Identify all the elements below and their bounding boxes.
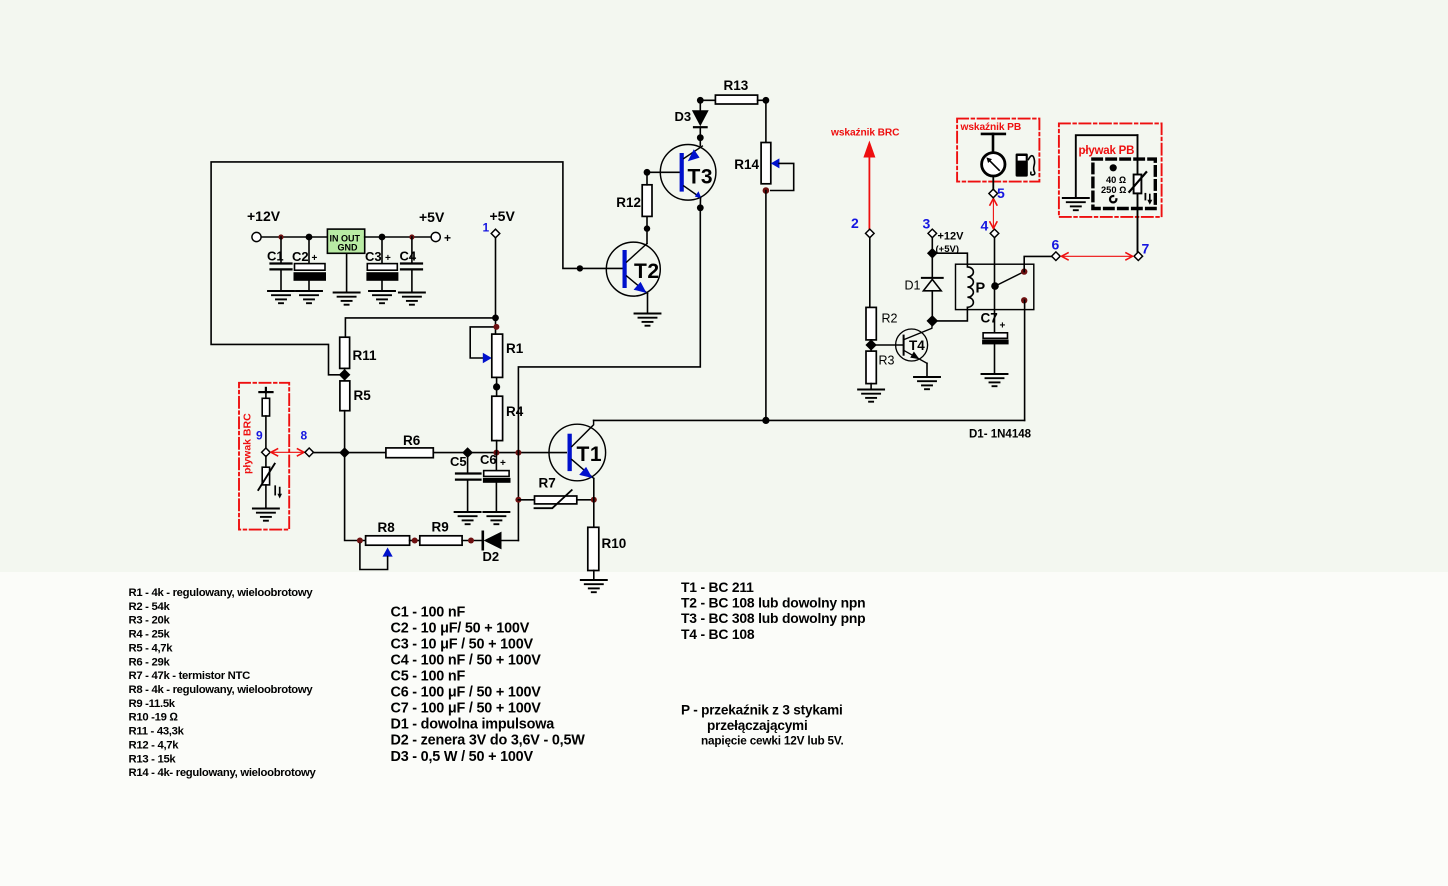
svg-text:R5 - 4,7k: R5 - 4,7k — [129, 642, 174, 654]
junction R8 left — [357, 538, 363, 544]
transistor T1 — [549, 420, 606, 480]
junction R7 left — [515, 497, 521, 503]
wire R11 to R5 — [344, 368, 346, 381]
svg-text:R1 - 4k - regulowany, wieloobr: R1 - 4k - regulowany, wieloobrotowy — [129, 587, 314, 599]
svg-text:C3 - 10 μF / 50 + 100V: C3 - 10 μF / 50 + 100V — [391, 637, 534, 653]
wire node 1 down to R1 — [495, 238, 497, 334]
svg-text:R10 -19 Ω: R10 -19 Ω — [129, 712, 179, 724]
ground regulator — [334, 293, 360, 305]
svg-text:D1- 1N4148: D1- 1N4148 — [969, 429, 1032, 441]
wire sender resistor to node 9 — [265, 416, 267, 449]
ground R10 — [581, 580, 607, 592]
transistor T4 — [896, 322, 933, 364]
svg-text:C6: C6 — [480, 452, 497, 467]
diode D2 zener — [483, 532, 502, 564]
svg-text:3: 3 — [923, 216, 931, 232]
wire regulator GND — [346, 253, 348, 292]
rheostat PB sender — [1129, 172, 1152, 205]
junction C6 tap — [493, 450, 499, 456]
wire T3 emitter up to D3 — [699, 138, 701, 146]
wire node 3 to D1 — [931, 238, 933, 278]
wire vertical net D2/R7/node row — [517, 453, 519, 541]
svg-text:D3: D3 — [675, 109, 692, 124]
wire regulator OUT to +5V terminal — [365, 236, 431, 238]
svg-text:R12: R12 — [616, 195, 641, 210]
junction +5V rail — [492, 315, 499, 322]
svg-text:C6 - 100 μF / 50 + 100V: C6 - 100 μF / 50 + 100V — [391, 685, 542, 701]
resistor R2 — [866, 307, 898, 340]
junction C3 tap — [379, 234, 386, 241]
svg-text:C7: C7 — [981, 311, 998, 326]
junction D3/R13 — [697, 97, 704, 104]
svg-text:+5V: +5V — [490, 208, 516, 224]
junction R9/D2 — [468, 538, 474, 544]
wire T2 collector to R12 — [646, 216, 648, 243]
svg-text:4: 4 — [981, 218, 989, 234]
wire lower contact down — [1024, 300, 1026, 420]
resistor R3 — [866, 351, 895, 384]
svg-text:+12V: +12V — [938, 231, 965, 243]
svg-text:R4 - 25k: R4 - 25k — [129, 629, 171, 641]
diode D1 — [905, 278, 943, 321]
capacitor C2 — [292, 237, 326, 291]
svg-text:C2 - 10 μF/ 50 + 100V: C2 - 10 μF/ 50 + 100V — [391, 620, 530, 636]
junction R12/T3 base — [644, 169, 651, 176]
svg-text:8: 8 — [301, 429, 308, 443]
wire plywak PB top — [1076, 135, 1138, 196]
wire node 2 to R2 — [869, 238, 871, 308]
svg-text:R8 - 4k - regulowany, wieloobr: R8 - 4k - regulowany, wieloobrotowy — [129, 684, 314, 696]
svg-text:C4 - 100 nF / 50 + 100V: C4 - 100 nF / 50 + 100V — [391, 653, 542, 669]
wire R7 right lead — [577, 499, 594, 501]
resistor R11 — [340, 337, 377, 368]
svg-text:+: + — [444, 231, 451, 245]
potentiometer R1 wiper loop — [470, 327, 496, 363]
diode D3 — [675, 100, 709, 137]
svg-text:+12V: +12V — [247, 208, 281, 224]
wire T4 emitter to ground — [926, 363, 928, 377]
svg-text:D1: D1 — [905, 279, 921, 293]
potentiometer R14 wiper loop — [771, 158, 794, 190]
red link arrow node 6 to node 7 — [1062, 253, 1133, 260]
ground T4 — [914, 377, 940, 389]
svg-text:R14: R14 — [734, 157, 759, 172]
node 4 — [990, 229, 999, 238]
wire coil feed — [932, 253, 967, 264]
wire +5V rail to R11 — [345, 318, 495, 337]
svg-text:R6: R6 — [403, 433, 421, 448]
svg-text:D1 - dowolna impulsowa: D1 - dowolna impulsowa — [391, 717, 556, 733]
svg-text:przełączającymi: przełączającymi — [707, 718, 808, 733]
wire node 8 to R6 — [314, 452, 386, 454]
svg-text:R1: R1 — [506, 341, 524, 356]
svg-text:R12 - 4,7k: R12 - 4,7k — [129, 740, 180, 752]
svg-text:C1 - 100 nF: C1 - 100 nF — [391, 604, 466, 620]
wire upper contact to node 6 — [1024, 256, 1051, 271]
svg-text:2: 2 — [851, 215, 859, 231]
svg-text:R14 - 4k- regulowany, wieloobr: R14 - 4k- regulowany, wieloobrotowy — [129, 767, 317, 779]
ground C5 — [455, 512, 481, 524]
ground C3 — [369, 291, 395, 303]
junction R11/R5 — [339, 369, 351, 381]
svg-text:R13: R13 — [724, 78, 749, 93]
resistor R9 — [420, 520, 462, 546]
ground C7 — [982, 374, 1008, 386]
svg-text:R7 - 47k - termistor NTC: R7 - 47k - termistor NTC — [129, 670, 251, 682]
relay contact upper — [1021, 268, 1027, 274]
ground plywak PB — [1063, 198, 1089, 210]
fuel pump icon — [1016, 154, 1035, 177]
svg-text:40 Ω: 40 Ω — [1106, 175, 1126, 185]
junction R13/R14 — [763, 97, 770, 104]
svg-text:C4: C4 — [400, 249, 417, 264]
wire R1 to R4 — [496, 377, 498, 396]
junction D1/T4 collector/coil — [927, 315, 939, 327]
junction on T2 base wire — [577, 265, 583, 271]
svg-text:pływak PB: pływak PB — [1079, 145, 1135, 157]
gauge needle — [986, 157, 999, 170]
wire rheostat to node 7 — [1137, 193, 1139, 252]
plywak PB inner dashed box — [1093, 159, 1155, 208]
plywak BRC dashed box — [239, 383, 289, 530]
junction relay common contact — [991, 282, 999, 290]
wire R5 down to node-8 row — [344, 411, 346, 453]
svg-text:R6 - 29k: R6 - 29k — [129, 656, 171, 668]
svg-text:R13 - 15k: R13 - 15k — [129, 753, 177, 765]
terminal bar in plywak BRC — [259, 388, 272, 392]
wire R3 to ground — [870, 384, 872, 390]
wire node 4 through relay to C7 — [994, 238, 996, 333]
wire T3 collector down — [699, 198, 701, 208]
svg-text:wskaźnik PB: wskaźnik PB — [960, 122, 1022, 133]
resistor R10 — [588, 527, 626, 570]
wire R13 to R14 — [758, 99, 766, 101]
svg-text:P: P — [976, 281, 986, 297]
wire R8 to R9 — [410, 540, 420, 542]
wire gauge to node 5 — [992, 176, 994, 189]
svg-text:D3 - 0,5 W / 50 + 100V: D3 - 0,5 W / 50 + 100V — [391, 749, 534, 765]
potentiometer R8 — [366, 520, 410, 545]
wire T1 emitter to R10 — [593, 479, 595, 528]
svg-text:T2: T2 — [634, 260, 660, 283]
svg-text:C5 - 100 nF: C5 - 100 nF — [391, 669, 466, 685]
red link arrow node 9 to node 8 — [271, 449, 304, 456]
wire T3 base — [647, 171, 680, 173]
svg-text:T3 - BC 308 lub dowolny pnp: T3 - BC 308 lub dowolny pnp — [681, 610, 865, 626]
node 6 — [1052, 252, 1061, 261]
svg-text:R5: R5 — [354, 388, 372, 403]
svg-text:1: 1 — [483, 221, 490, 235]
svg-text:+: + — [312, 253, 318, 264]
svg-text:+: + — [500, 458, 506, 469]
svg-text:R2: R2 — [882, 312, 898, 326]
ground C1 — [268, 291, 294, 303]
svg-text:C5: C5 — [450, 454, 467, 469]
relay contact lower — [1021, 297, 1027, 303]
junction R1/R4 — [493, 383, 500, 390]
node 2 — [866, 229, 875, 238]
wire R10 to ground — [593, 571, 595, 581]
junction R14 line / collector line — [762, 417, 769, 424]
thermistor R7 — [535, 476, 577, 509]
potentiometer R1 — [492, 334, 524, 377]
junction C1 tap — [278, 234, 283, 239]
capacitor C4 — [400, 237, 423, 293]
wire rheostat to ground — [265, 485, 267, 509]
ground C6 — [483, 512, 509, 524]
svg-text:R11: R11 — [353, 348, 378, 363]
wire R13 junction down to R14 — [765, 100, 767, 142]
svg-text:T1: T1 — [577, 443, 603, 466]
svg-text:D2 - zenera 3V do 3,6V - 0,5W: D2 - zenera 3V do 3,6V - 0,5W — [391, 733, 586, 749]
wire T1 collector line to relay contact — [594, 419, 1025, 421]
wire T4 base — [871, 344, 904, 346]
junction T1 emitter / R7 — [591, 497, 597, 503]
regulator U1 IN OUT GND — [327, 229, 364, 253]
node 1 — [491, 229, 500, 238]
svg-text:wskaźnik BRC: wskaźnik BRC — [830, 128, 900, 139]
svg-text:R3 - 20k: R3 - 20k — [129, 615, 171, 627]
junction R8/R9 — [412, 538, 418, 544]
wskaznik PB dashed box — [957, 119, 1039, 182]
svg-text:+: + — [385, 253, 391, 264]
svg-text:C2: C2 — [292, 249, 309, 264]
ground T2 — [635, 314, 661, 326]
relay switch arm — [995, 272, 1024, 287]
node 3 — [928, 229, 937, 238]
svg-text:P - przekaźnik z 3 stykami: P - przekaźnik z 3 stykami — [681, 703, 843, 718]
svg-text:R8: R8 — [378, 520, 396, 535]
wire R2 to R3 — [870, 340, 872, 351]
terminal +5V output — [431, 231, 451, 245]
svg-text:T2 - BC 108 lub dowolny npn: T2 - BC 108 lub dowolny npn — [681, 595, 865, 611]
junction T3 collector node — [697, 204, 704, 211]
svg-text:+: + — [1000, 321, 1006, 332]
wire T3 collector net to D2/R7 vertical — [518, 208, 700, 453]
junction C4 tap — [409, 234, 414, 239]
svg-text:R4: R4 — [506, 404, 524, 419]
svg-text:T4 - BC 108: T4 - BC 108 — [681, 626, 755, 642]
svg-text:R3: R3 — [879, 354, 895, 368]
svg-text:9: 9 — [256, 429, 263, 443]
relay P box — [956, 264, 1034, 309]
value list resistors R1-R14 — [129, 587, 317, 779]
svg-text:napięcie cewki 12V lub 5V.: napięcie cewki 12V lub 5V. — [701, 733, 844, 747]
capacitor C1 — [267, 237, 292, 291]
svg-text:T1 - BC 211: T1 - BC 211 — [681, 579, 754, 595]
potentiometer R8 wiper loop — [360, 544, 393, 570]
junction R2/R3/T4 base — [865, 339, 876, 350]
rheostat BRC sender — [258, 464, 282, 499]
ground C2 — [296, 291, 322, 303]
junction R1 top — [493, 324, 499, 330]
resistor R12 — [616, 185, 652, 217]
svg-text:6: 6 — [1052, 237, 1060, 253]
svg-text:D2: D2 — [483, 549, 500, 564]
potentiometer R14 — [734, 143, 771, 184]
relay P coil — [967, 264, 973, 309]
wire R12 top to T3 base — [646, 172, 648, 185]
resistor R5 — [340, 381, 371, 411]
junction T2 collector corner — [644, 225, 650, 231]
svg-text:C3: C3 — [365, 249, 382, 264]
svg-text:R9: R9 — [432, 520, 449, 535]
svg-text:R9 -11.5k: R9 -11.5k — [129, 698, 176, 710]
wire R6 to T1 base — [433, 452, 566, 454]
rotation symbol — [1110, 196, 1116, 202]
transistor T2 — [606, 242, 660, 296]
wire plywak PB right vertical top — [1137, 135, 1139, 174]
svg-text:+5V: +5V — [419, 209, 445, 225]
sender contact dot — [1110, 164, 1117, 171]
svg-text:R11 - 43,3k: R11 - 43,3k — [129, 726, 185, 738]
transistor T3 — [660, 145, 716, 201]
junction T3 emitter node — [697, 134, 704, 141]
wire node 9 to rheostat — [265, 456, 267, 467]
wire R7 left lead — [518, 499, 534, 501]
junction node 3 / coil feed — [927, 248, 938, 259]
resistor R6 — [386, 433, 433, 458]
junction R14 bottom — [763, 187, 770, 194]
resistor R4 — [492, 396, 524, 440]
wire terminal to sender resistor — [265, 392, 267, 398]
node 8 — [305, 448, 314, 457]
terminal +12V input — [252, 232, 261, 241]
ground R3 — [858, 390, 884, 402]
node 9 — [262, 448, 271, 457]
gauge meter circle — [982, 153, 1005, 176]
node 5 — [989, 189, 998, 198]
capacitor C6 — [480, 452, 511, 512]
ground plywak BRC — [253, 509, 279, 521]
red arrow to wskaznik BRC — [863, 141, 875, 234]
resistor BRC sender — [262, 398, 269, 416]
svg-text:pływak BRC: pływak BRC — [242, 413, 254, 474]
red link arrow node 5 to node 4 — [990, 199, 997, 229]
svg-text:T3: T3 — [688, 166, 714, 189]
plywak PB dashed red box — [1059, 123, 1162, 216]
svg-text:R7: R7 — [539, 476, 556, 491]
svg-text:R10: R10 — [602, 536, 627, 551]
junction node row / R5 line — [339, 447, 350, 458]
wire coil return — [932, 310, 967, 321]
junction C5 tap — [462, 447, 473, 458]
capacitor C5 — [450, 453, 481, 512]
svg-text:250 Ω: 250 Ω — [1101, 185, 1126, 195]
wire T2 emitter to ground — [647, 294, 649, 314]
wire +12V terminal to regulator IN — [262, 236, 327, 238]
svg-text:7: 7 — [1142, 241, 1150, 257]
gauge terminal bar — [982, 134, 1005, 153]
capacitor C3 — [365, 237, 398, 291]
wire big loop: +12V line to T2 base — [211, 162, 622, 375]
wire R9 to D2 — [462, 540, 483, 542]
value list capacitors and diodes C1-D3 — [391, 604, 586, 764]
svg-text:R2 - 54k: R2 - 54k — [129, 601, 171, 613]
node 7 — [1134, 252, 1143, 261]
resistor R13 — [715, 78, 757, 104]
wire D2 to vertical net — [502, 540, 519, 542]
svg-text:T4: T4 — [909, 338, 925, 353]
svg-text:GND: GND — [338, 243, 359, 253]
svg-text:5: 5 — [997, 185, 1005, 201]
junction T3 collector line tap — [515, 450, 521, 456]
capacitor C7 — [981, 311, 1009, 375]
ground C4 — [399, 293, 425, 305]
wire R14 down to T1 collector line — [765, 191, 767, 421]
wire R5 line down to R8 row — [345, 453, 366, 541]
wire R4 to node row — [496, 441, 498, 453]
junction C2 tap — [306, 234, 313, 241]
note relay P description — [681, 703, 844, 748]
wire D3 to R13 — [700, 99, 715, 101]
value list transistors T1-T4 — [681, 579, 865, 642]
svg-text:C7 - 100 μF / 50 + 100V: C7 - 100 μF / 50 + 100V — [391, 701, 542, 717]
